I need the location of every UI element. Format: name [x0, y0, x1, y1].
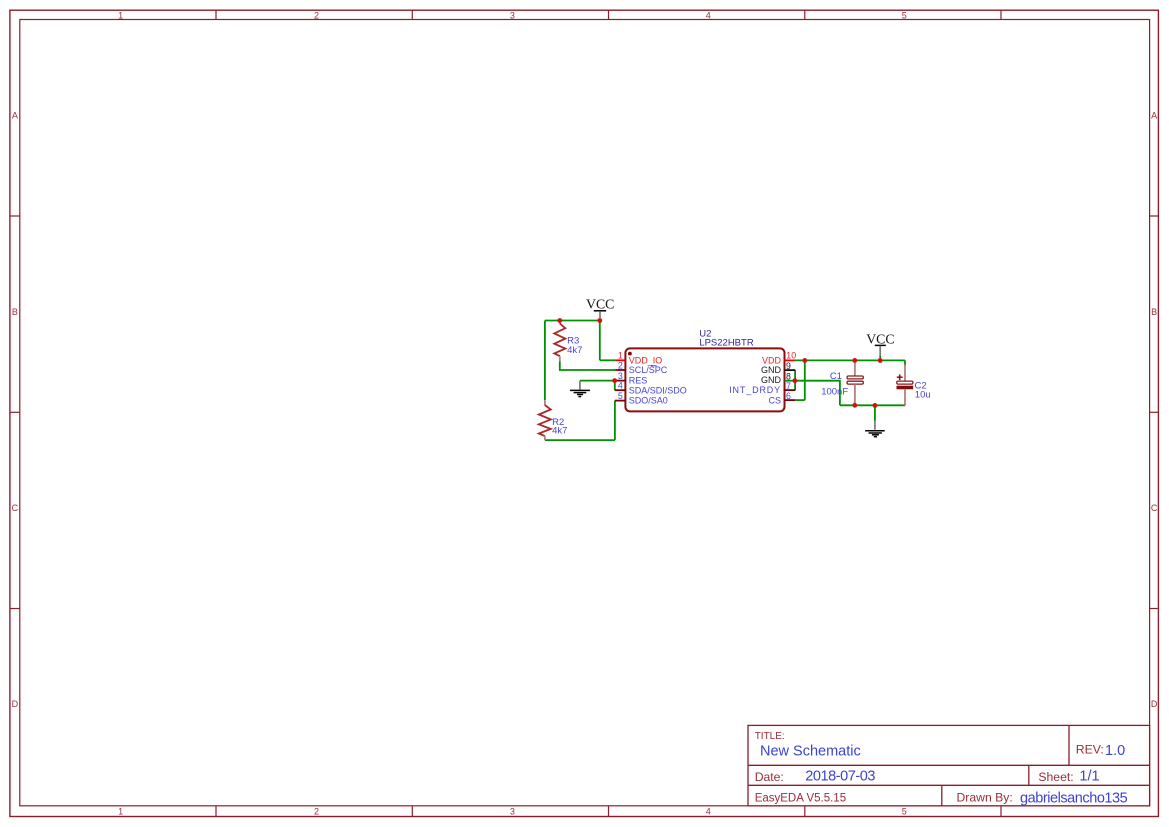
easyeda version label — [755, 792, 846, 804]
svg-text:3: 3 — [510, 10, 515, 20]
svg-text:SCL/SPC: SCL/SPC — [629, 365, 668, 375]
title label — [755, 731, 785, 742]
svg-text:Drawn By:: Drawn By: — [957, 790, 1013, 804]
pin name SCL/SPC — [629, 365, 668, 375]
wire pin8 to pin7 vertical — [794, 381, 796, 390]
svg-text:7: 7 — [786, 381, 791, 391]
pin name VDD_IO — [629, 355, 663, 365]
pin 2 stub — [615, 369, 625, 371]
pin 9 stub — [785, 369, 796, 371]
frame column numbers — [118, 10, 907, 816]
value R2 4k7 — [552, 426, 567, 437]
ground symbol left — [570, 381, 590, 397]
pin name VDD — [762, 355, 782, 365]
svg-text:TITLE:: TITLE: — [755, 731, 785, 742]
svg-text:100nF: 100nF — [821, 387, 848, 398]
pin 4 stub — [615, 389, 626, 391]
pin number 9 — [786, 361, 791, 371]
pin 7 stub — [785, 389, 796, 391]
junction node GND pins — [793, 378, 798, 383]
svg-text:GND: GND — [761, 365, 782, 375]
pin number 3 — [618, 371, 623, 381]
op-amp U2 body — [625, 348, 784, 411]
value LPS22HBTR — [699, 337, 754, 348]
pin 1 marker dot — [628, 352, 632, 356]
svg-text:1.0: 1.0 — [1105, 743, 1125, 759]
pin name INT_DRDY — [729, 385, 781, 395]
junction node VDD/CS — [802, 358, 807, 363]
svg-text:INT_DRDY: INT_DRDY — [729, 385, 781, 395]
junction node RES — [612, 378, 617, 383]
wire RES to ground — [580, 380, 615, 382]
svg-text:3: 3 — [510, 806, 515, 816]
ground symbol right — [865, 421, 885, 437]
svg-text:GND: GND — [761, 375, 782, 385]
svg-text:2: 2 — [314, 10, 319, 20]
wire pin10 VDD rail — [795, 359, 905, 361]
pin name CS — [768, 395, 781, 405]
pin 3 stub — [616, 380, 625, 382]
svg-text:New Schematic: New Schematic — [760, 744, 861, 760]
pin 1 stub — [615, 359, 625, 361]
svg-text:C1: C1 — [830, 371, 842, 382]
svg-text:C: C — [1151, 503, 1158, 513]
svg-text:gabrielsancho135: gabrielsancho135 — [1020, 790, 1128, 806]
svg-text:5: 5 — [902, 10, 907, 20]
label R3 — [567, 336, 579, 347]
resistor R3 — [554, 321, 565, 362]
svg-text:D: D — [1151, 699, 1158, 709]
wire C2 right vertical top — [904, 360, 906, 366]
label R2 — [552, 417, 564, 428]
svg-text:1/1: 1/1 — [1079, 769, 1099, 785]
sheet label — [1038, 770, 1073, 784]
pin name RES — [629, 376, 648, 386]
svg-text:Sheet:: Sheet: — [1038, 770, 1073, 784]
label U2 — [699, 329, 711, 340]
svg-text:B: B — [12, 307, 18, 317]
svg-text:2: 2 — [618, 360, 623, 370]
wire bottom R2 to pin5 — [545, 439, 615, 441]
wire VCC to pin1 vertical — [599, 321, 601, 361]
value C1 100nF — [821, 387, 848, 398]
svg-text:1: 1 — [118, 10, 123, 20]
wire bottom GND rail — [840, 404, 905, 406]
pin name GND 9 — [761, 365, 782, 375]
wire pin5 down vertical — [614, 401, 616, 441]
pin number 1 — [618, 351, 623, 361]
svg-text:3: 3 — [618, 371, 623, 381]
svg-text:Date:: Date: — [755, 770, 784, 784]
junction node R3/VCC — [557, 318, 562, 323]
junction node C1 bottom — [852, 403, 857, 408]
drawn by label — [957, 790, 1013, 804]
wire to pin1 horizontal — [600, 359, 616, 361]
wire pin3 to pin4 vertical — [614, 381, 616, 391]
pin name GND 8 — [761, 375, 782, 385]
svg-text:RES: RES — [629, 376, 648, 386]
svg-text:SDO/SA0: SDO/SA0 — [629, 396, 668, 406]
svg-text:4k7: 4k7 — [552, 426, 567, 437]
pin 8 stub — [785, 380, 795, 382]
wire C2 right vertical bottom — [904, 404, 906, 405]
svg-text:A: A — [1151, 110, 1157, 120]
resistor R2 — [539, 400, 551, 440]
label C2 — [915, 381, 927, 392]
svg-text:10u: 10u — [915, 390, 931, 401]
wire R3 bottom to pin2 — [560, 362, 616, 371]
rev label — [1076, 742, 1104, 756]
svg-text:VDD: VDD — [762, 355, 782, 365]
pin 10 stub — [785, 359, 795, 361]
capacitor C2 — [897, 365, 913, 406]
value C2 10u — [915, 390, 931, 401]
title value New Schematic — [760, 744, 861, 760]
label C1 — [830, 371, 842, 382]
svg-text:C: C — [12, 503, 19, 513]
svg-text:2018-07-03: 2018-07-03 — [805, 769, 875, 785]
frame row letters — [12, 110, 1158, 709]
svg-text:LPS22HBTR: LPS22HBTR — [699, 337, 754, 348]
junction node GND bottom — [873, 403, 878, 408]
pin 6 stub — [785, 399, 796, 401]
svg-text:D: D — [12, 699, 19, 709]
svg-text:4k7: 4k7 — [567, 345, 582, 356]
svg-text:8: 8 — [786, 371, 791, 381]
wire CS vertical — [804, 360, 806, 400]
svg-text:6: 6 — [786, 391, 791, 401]
pin name SDO/SA0 — [629, 396, 668, 406]
svg-text:4: 4 — [618, 381, 623, 391]
svg-text:4: 4 — [706, 10, 711, 20]
label VCC right — [866, 332, 894, 347]
date value 2018-07-03 — [805, 769, 875, 785]
svg-text:5: 5 — [902, 806, 907, 816]
svg-text:B: B — [1151, 307, 1157, 317]
pin number 5 — [618, 391, 623, 401]
pin number 10 — [786, 351, 796, 361]
wire CS horizontal — [795, 399, 805, 401]
pin number 4 — [618, 381, 623, 391]
svg-text:4: 4 — [706, 806, 711, 816]
sheet value 1/1 — [1079, 769, 1099, 785]
svg-text:REV:: REV: — [1076, 742, 1104, 756]
svg-text:A: A — [12, 110, 18, 120]
junction node VCC left — [597, 318, 602, 323]
wire pin9 to pin8 vertical — [794, 370, 796, 381]
svg-text:VCC: VCC — [586, 297, 614, 312]
svg-text:5: 5 — [618, 391, 623, 401]
svg-text:1: 1 — [118, 806, 123, 816]
pin number 6 — [786, 391, 791, 401]
wire ground stub right — [874, 405, 876, 421]
svg-text:CS: CS — [768, 395, 781, 405]
drawn by value gabrielsancho135 — [1020, 790, 1128, 806]
svg-text:2: 2 — [314, 806, 319, 816]
wire pin8 GND net — [795, 381, 840, 406]
pin number 7 — [786, 381, 791, 391]
svg-text:VDD_IO: VDD_IO — [629, 355, 663, 365]
pin 5 stub — [615, 400, 626, 402]
power VCC symbol right — [875, 345, 886, 358]
svg-text:VCC: VCC — [866, 332, 894, 347]
svg-text:9: 9 — [786, 361, 791, 371]
svg-text:EasyEDA V5.5.15: EasyEDA V5.5.15 — [755, 792, 846, 804]
rev value 1.0 — [1105, 743, 1125, 759]
label VCC left — [586, 297, 614, 312]
pin name SDA/SDI/SDO — [629, 385, 687, 395]
pin number 8 — [786, 371, 791, 381]
svg-text:1: 1 — [618, 351, 623, 361]
date label — [755, 770, 784, 784]
power VCC symbol left — [594, 311, 606, 318]
overline SPC — [651, 365, 657, 367]
junction node C1 top — [852, 358, 857, 363]
frame row ticks — [10, 216, 1159, 609]
wire VCC rail top left — [545, 320, 600, 322]
title block — [748, 725, 1150, 805]
svg-text:SDA/SDI/SDO: SDA/SDI/SDO — [629, 385, 687, 395]
value R3 4k7 — [567, 345, 582, 356]
capacitor C1 — [847, 360, 863, 405]
pin number 2 — [618, 360, 623, 370]
svg-text:10: 10 — [786, 351, 796, 361]
frame column ticks — [216, 10, 1001, 816]
wire left vertical to R2 — [544, 321, 546, 401]
junction node VCC right — [878, 358, 883, 363]
